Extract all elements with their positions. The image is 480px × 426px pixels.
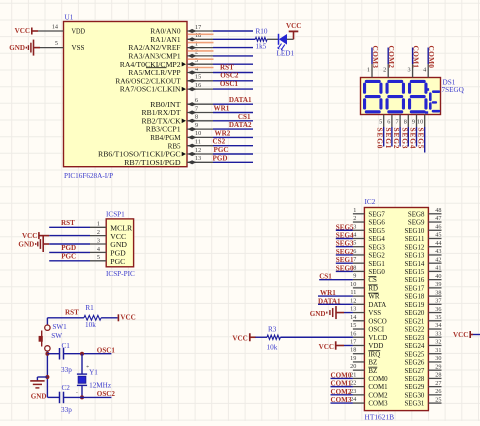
svg-text:8: 8	[353, 264, 356, 271]
svg-text:BZ: BZ	[368, 368, 377, 375]
pin IC2.19 BZ	[350, 355, 377, 367]
pin DS1.9 (SEG4)	[412, 115, 417, 128]
svg-text:2: 2	[383, 67, 386, 74]
svg-text:VDD: VDD	[368, 343, 383, 350]
pin ICSP1.4 PGD	[90, 246, 126, 258]
svg-text:VSS: VSS	[72, 43, 85, 52]
svg-text:26: 26	[435, 388, 441, 395]
svg-text:SEG14: SEG14	[404, 261, 424, 268]
ground GND (ICSP1)	[18, 236, 49, 252]
net label PGD	[213, 154, 228, 162]
svg-text:SW: SW	[51, 332, 62, 340]
svg-text:GND: GND	[9, 44, 25, 52]
pin IC2.48 SEG8	[408, 207, 442, 218]
display DS1 body	[361, 78, 441, 115]
wire (unlabeled stub)	[213, 55, 253, 57]
warning marks (salmon)	[188, 34, 214, 67]
svg-text:SEG0: SEG0	[376, 128, 385, 149]
svg-text:SEG6: SEG6	[368, 220, 385, 227]
wire net COM1	[412, 48, 414, 65]
svg-text:SEG1: SEG1	[336, 256, 354, 264]
pin IC2.5 SEG3	[353, 240, 386, 252]
wire net SEG4	[416, 127, 418, 147]
wire net COM3	[371, 48, 373, 65]
pin IC2.25 SEG31	[404, 396, 441, 407]
pin U1.2 RA3/AN3/CMP1	[128, 49, 213, 61]
wire Y1 top lead	[81, 354, 83, 374]
pin IC2.46 SEG10	[404, 223, 441, 234]
pin ICSP1.2 VCC	[90, 229, 126, 241]
pin IC2.4 SEG4	[353, 231, 386, 243]
svg-text:SEG26: SEG26	[404, 360, 424, 367]
crystal Y1	[77, 369, 111, 390]
svg-text:DATA1: DATA1	[318, 297, 341, 305]
wire (unlabeled stub)	[213, 47, 253, 49]
svg-text:7SEGQ: 7SEGQ	[442, 86, 465, 94]
svg-text:47: 47	[435, 215, 441, 222]
svg-text:SEG4: SEG4	[409, 128, 418, 149]
svg-text:SEG1: SEG1	[368, 261, 385, 268]
pin U1.1 RA2/AN2/VREF	[128, 40, 213, 52]
pin U1.15 RA6/OSC2/CLKOUT	[115, 74, 213, 86]
svg-text:SEG4: SEG4	[336, 231, 354, 239]
svg-text:CS1: CS1	[238, 113, 251, 121]
pin IC2.23 COM2	[350, 388, 388, 400]
power VCC (right edge)	[453, 331, 473, 339]
svg-text:SEG20: SEG20	[404, 310, 424, 317]
svg-text:10: 10	[195, 130, 201, 137]
svg-text:3: 3	[97, 237, 100, 244]
svg-text:SEG2: SEG2	[368, 253, 385, 260]
svg-text:WR: WR	[368, 294, 380, 301]
svg-text:RST: RST	[220, 63, 234, 71]
pin IC2.44 SEG12	[404, 240, 441, 251]
svg-text:SEG3: SEG3	[400, 128, 409, 149]
pin DS1.10 (SEG5)	[417, 115, 425, 128]
svg-text:SEG0: SEG0	[368, 269, 385, 276]
svg-text:SEG22: SEG22	[404, 327, 424, 334]
net label OSC2	[97, 390, 116, 398]
svg-text:16: 16	[195, 82, 201, 89]
svg-text:ICSP-PIC: ICSP-PIC	[106, 270, 135, 278]
power VCC (ICSP1)	[22, 232, 49, 240]
resistor R1	[84, 304, 101, 329]
svg-text:SEG16: SEG16	[404, 277, 424, 284]
pin IC2.15 OSCI	[350, 322, 385, 334]
svg-text:40: 40	[435, 273, 441, 280]
net label RST	[220, 63, 234, 71]
wire U1 RA1 to R10	[213, 38, 255, 40]
svg-text:OSC2: OSC2	[220, 72, 239, 80]
svg-text:COM2: COM2	[368, 392, 388, 399]
capacitor C2	[60, 384, 73, 414]
wire net SEG4 (IC2)	[336, 237, 353, 239]
svg-text:SEG11: SEG11	[405, 236, 425, 243]
svg-text:DATA1: DATA1	[229, 96, 252, 104]
wire net SEG5 (IC2)	[336, 229, 353, 231]
net label OSC1	[97, 346, 116, 354]
wire net DATA1	[213, 103, 253, 105]
svg-text:28: 28	[435, 372, 441, 379]
svg-text:1: 1	[353, 207, 356, 214]
svg-text:SEG5: SEG5	[417, 128, 426, 149]
svg-text:41: 41	[435, 265, 441, 272]
pin IC2.28 SEG28	[404, 372, 441, 383]
net label COM0	[427, 46, 436, 69]
pin ICSP1.5 PGC	[90, 254, 125, 266]
pin IC2.2 SEG6	[353, 215, 386, 227]
svg-text:20: 20	[350, 363, 356, 370]
svg-text:RST: RST	[61, 219, 75, 227]
svg-text:PGC: PGC	[110, 257, 125, 266]
value PIC16F628A-I/P	[64, 172, 113, 180]
wire net RST (ICSP1)	[49, 226, 90, 228]
pin IC2.47 SEG9	[408, 215, 442, 226]
svg-text:38: 38	[435, 289, 441, 296]
svg-text:C2: C2	[62, 384, 71, 392]
connector ICSP1 body	[106, 219, 133, 267]
net label OSC1	[220, 80, 239, 88]
svg-text:GND: GND	[310, 310, 326, 318]
svg-text:12: 12	[350, 297, 356, 304]
svg-text:SEG13: SEG13	[404, 253, 424, 260]
wire net CS1 (IC2)	[319, 279, 353, 281]
svg-text:PIC16F628A-I/P: PIC16F628A-I/P	[64, 172, 113, 180]
designator ICSP1	[106, 210, 125, 218]
net label SEG0 (IC2)	[336, 264, 354, 272]
wire GND branch	[37, 377, 47, 381]
svg-text:VCC: VCC	[120, 314, 135, 322]
svg-text:2: 2	[353, 215, 356, 222]
svg-text:42: 42	[435, 256, 441, 263]
svg-text:WR2: WR2	[215, 129, 231, 137]
pin U1.14 VDD	[38, 24, 85, 36]
svg-text:VLCD: VLCD	[368, 335, 387, 342]
resistor R3	[267, 325, 281, 351]
wire net SEG3 (IC2)	[336, 246, 353, 248]
wire net SEG1	[391, 127, 393, 147]
svg-text:12MHz: 12MHz	[89, 382, 111, 390]
net label COM0 (IC2)	[331, 371, 352, 379]
pin IC2.35 SEG21	[404, 314, 441, 325]
svg-text:19: 19	[350, 355, 356, 362]
svg-text:15: 15	[350, 322, 356, 329]
pin U1.18 RA1/AN1	[150, 32, 213, 44]
svg-text:17: 17	[195, 24, 201, 31]
svg-text:SEG1: SEG1	[384, 128, 393, 149]
svg-text:PGD: PGD	[61, 244, 76, 252]
wire net COM2	[387, 48, 389, 65]
svg-text:PGD: PGD	[213, 154, 228, 162]
net label DATA1	[229, 96, 252, 104]
svg-text:32: 32	[435, 339, 441, 346]
svg-text:35: 35	[435, 314, 441, 321]
svg-text:SEG4: SEG4	[368, 236, 385, 243]
pin IC2.34 SEG22	[404, 322, 441, 333]
pin IC2.36 SEG20	[404, 306, 441, 317]
svg-text:14: 14	[350, 314, 356, 321]
svg-text:COM1: COM1	[412, 46, 421, 69]
net label COM2	[387, 46, 396, 69]
wire net SEG1 (IC2)	[336, 262, 353, 264]
wire net PGD (ICSP1)	[49, 251, 90, 253]
svg-text:4: 4	[97, 246, 100, 253]
net label CS2	[213, 138, 226, 146]
pin IC2.29 SEG27	[404, 363, 441, 374]
wire net COM3 (IC2)	[331, 402, 353, 404]
svg-text:RB7/T1OSI/PGD: RB7/T1OSI/PGD	[124, 158, 181, 167]
wire net SEG0	[383, 127, 385, 147]
svg-text:OSC1: OSC1	[220, 80, 239, 88]
pin U1.17 RA0/AN0	[150, 24, 213, 36]
svg-text:OSCI: OSCI	[368, 327, 384, 334]
net label CS1	[238, 113, 251, 121]
svg-text:SEG31: SEG31	[404, 401, 424, 408]
svg-text:COM1: COM1	[331, 380, 352, 388]
svg-text:8: 8	[195, 114, 198, 121]
pin IC2.38 SEG18	[404, 289, 441, 300]
value ICSP-PIC	[106, 270, 135, 278]
svg-text:34: 34	[435, 322, 441, 329]
svg-text:29: 29	[435, 363, 441, 370]
svg-text:SEG2: SEG2	[392, 128, 401, 149]
pin DS1.5 (SEG0)	[379, 115, 384, 128]
svg-text:GND: GND	[31, 393, 47, 401]
wire net WR1 (IC2)	[318, 295, 353, 297]
net label SEG1 (IC2)	[336, 256, 354, 264]
ground GND (U1 VSS)	[9, 40, 40, 56]
wire R1 to VCC	[101, 317, 117, 319]
pin IC2.33 SEG23	[404, 330, 441, 341]
net label WR2	[215, 129, 231, 137]
svg-text:3: 3	[195, 57, 198, 64]
svg-text:SEG15: SEG15	[404, 269, 424, 276]
svg-text:17: 17	[350, 338, 356, 345]
svg-text:SEG7: SEG7	[368, 211, 385, 218]
wire rail to C1	[47, 353, 59, 355]
wire Y1 bottom lead	[81, 385, 83, 397]
svg-text:PGC: PGC	[61, 252, 76, 260]
svg-text:CS2: CS2	[213, 138, 226, 146]
svg-text:WR1: WR1	[214, 105, 230, 113]
pin U1.9 RB3/CCP1	[146, 122, 213, 134]
net label SEG2 (IC2)	[336, 248, 354, 256]
wire net COM0	[427, 48, 429, 65]
wire net PGC (ICSP1)	[49, 260, 90, 262]
wire net SEG2 (IC2)	[336, 254, 353, 256]
pin IC2.20 BZ	[350, 363, 377, 375]
net label OSC2	[220, 72, 239, 80]
power VCC (R3)	[232, 333, 255, 342]
net label CS1 (IC2)	[319, 273, 332, 281]
pin DS1.4 (COM0)	[423, 64, 428, 78]
svg-text:DATA2: DATA2	[229, 121, 252, 129]
pin U1.16 RA7/OSC1/CLKIN	[120, 82, 213, 94]
7-seg digit 3	[408, 80, 428, 114]
svg-text:10: 10	[350, 281, 356, 288]
net label COM2 (IC2)	[331, 388, 352, 396]
svg-text:2: 2	[195, 49, 198, 56]
svg-text:5: 5	[97, 254, 100, 261]
pin IC2.40 SEG16	[404, 273, 441, 284]
svg-text:VDD: VDD	[72, 27, 86, 36]
wire net SEG3	[407, 127, 409, 147]
wire net WR1	[213, 112, 253, 114]
chip IC2 body	[364, 208, 428, 411]
svg-text:5: 5	[55, 40, 58, 47]
wire net COM0 (IC2)	[331, 377, 353, 379]
pin ICSP1.3 GND	[90, 237, 127, 249]
svg-text:9: 9	[412, 119, 415, 126]
svg-text:SEG29: SEG29	[404, 384, 424, 391]
wire net PGC	[213, 153, 253, 155]
wire C1 to OSC1	[64, 353, 112, 355]
switch SW1	[39, 323, 68, 351]
svg-text:6: 6	[353, 248, 356, 255]
svg-text:25: 25	[435, 396, 441, 403]
net label COM3 (IC2)	[331, 396, 352, 404]
svg-text:SEG17: SEG17	[404, 285, 424, 292]
wire net DATA1 (IC2)	[318, 303, 353, 305]
wire GND to ICSP1.3	[49, 243, 90, 245]
svg-text:SEG2: SEG2	[336, 248, 354, 256]
pin DS1.3 (COM1)	[408, 64, 413, 78]
svg-text:LED1: LED1	[277, 49, 295, 57]
svg-text:4: 4	[353, 231, 356, 238]
svg-text:5: 5	[379, 119, 382, 126]
clipped 4th digit segments	[425, 88, 440, 114]
pin U1.8 RB2/TX/CK	[142, 114, 214, 126]
svg-text:2: 2	[97, 229, 100, 236]
junction (Y1 bottom)	[80, 395, 84, 399]
svg-text:WR1: WR1	[320, 289, 336, 297]
svg-text:33: 33	[435, 330, 441, 337]
net label PGD (ICSP1)	[61, 244, 76, 252]
svg-text:ICSP1: ICSP1	[106, 210, 125, 218]
svg-text:VCC: VCC	[286, 22, 301, 30]
svg-text:U1: U1	[65, 14, 74, 22]
wire net SEG5	[424, 127, 426, 153]
svg-text:SEG18: SEG18	[404, 294, 424, 301]
net label DATA1 (IC2)	[318, 297, 341, 305]
svg-text:SEG12: SEG12	[404, 244, 424, 251]
svg-text:13: 13	[195, 155, 201, 162]
svg-text:46: 46	[435, 223, 441, 230]
pin IC2.42 SEG14	[404, 256, 441, 267]
wire net COM1 (IC2)	[331, 386, 353, 388]
power VCC (LED1)	[286, 22, 301, 40]
resistor R10	[255, 28, 268, 51]
svg-text:4: 4	[195, 65, 198, 72]
svg-text:SEG3: SEG3	[336, 240, 354, 248]
svg-text:37: 37	[435, 298, 441, 305]
wire net PGD	[213, 161, 253, 163]
svg-text:4: 4	[423, 67, 426, 74]
wire net SEG2	[399, 127, 401, 147]
pin DS1.1 (COM3)	[367, 64, 372, 78]
chip U1 body	[64, 22, 188, 167]
pin U1.12 RB6/T1OSO/T1CKI/PGC	[98, 147, 213, 159]
wire net RST (switch row)	[47, 318, 84, 325]
pin U1.7 RB1/RX/DT	[142, 105, 214, 117]
svg-text:Y1: Y1	[89, 369, 98, 377]
pin U1.6 RB0/INT	[150, 97, 213, 109]
svg-text:SEG21: SEG21	[404, 318, 424, 325]
net label SEG5	[417, 128, 426, 149]
svg-text:1: 1	[97, 221, 100, 228]
LED LED1	[267, 34, 294, 58]
pin IC2.21 COM0	[350, 371, 388, 383]
pin U1.10 RB4/PGM	[150, 130, 213, 142]
svg-text:3: 3	[353, 223, 356, 230]
svg-text:7: 7	[353, 256, 356, 263]
svg-text:33p: 33p	[61, 406, 72, 414]
svg-text:OSC2: OSC2	[97, 390, 116, 398]
pin DS1.7 (SEG2)	[396, 115, 401, 128]
svg-text:10: 10	[417, 119, 423, 126]
svg-text:COM0: COM0	[331, 371, 352, 379]
net label COM1 (IC2)	[331, 380, 352, 388]
net label COM1	[412, 46, 421, 69]
svg-text:SEG5: SEG5	[336, 223, 354, 231]
pin IC2.26 SEG30	[404, 388, 441, 399]
power VCC (R1)	[118, 314, 135, 322]
svg-text:18: 18	[350, 347, 356, 354]
pin U1.4 RA5/MCLR/VPP	[128, 65, 213, 77]
wire VCC to R3	[255, 336, 267, 338]
svg-text:5: 5	[353, 240, 356, 247]
svg-text:33p: 33p	[61, 366, 72, 374]
pin IC2.41 SEG15	[404, 265, 441, 276]
pin IC2.31 SEG25	[404, 347, 441, 358]
svg-text:30: 30	[435, 355, 441, 362]
svg-text:SEG23: SEG23	[404, 335, 424, 342]
pin IC2.10 RD	[350, 281, 378, 293]
svg-text:44: 44	[435, 240, 441, 247]
svg-text:PGC: PGC	[214, 146, 229, 154]
svg-text:SEG25: SEG25	[404, 351, 424, 358]
pin DS1.2 (COM2)	[383, 64, 388, 78]
pin IC2.8 SEG0	[353, 264, 386, 276]
net label PGC (ICSP1)	[61, 252, 76, 260]
svg-text:1: 1	[195, 40, 198, 47]
net label WR1 (IC2)	[320, 289, 336, 297]
pin IC2.14 OSCO	[350, 314, 387, 326]
net label SEG0	[376, 128, 385, 149]
svg-text:R10: R10	[256, 28, 268, 36]
svg-text:1: 1	[367, 67, 370, 74]
svg-text:36: 36	[435, 306, 441, 313]
wire (unlabeled stub)	[213, 30, 253, 32]
svg-text:11: 11	[350, 289, 356, 296]
designator IC2	[365, 198, 376, 206]
svg-text:1k5: 1k5	[256, 42, 267, 50]
net label SEG1	[384, 128, 393, 149]
pin IC2.9 CS	[353, 273, 377, 285]
pin IC2.17 VDD	[350, 338, 383, 350]
wire net CS2	[213, 145, 253, 147]
svg-text:COM0: COM0	[427, 46, 436, 69]
svg-text:18: 18	[195, 32, 201, 39]
pin U1.3 RA4/T0CKI/CMP2	[120, 57, 213, 69]
svg-text:*: *	[86, 365, 89, 371]
junction (rail/GND)	[45, 375, 49, 379]
svg-text:31: 31	[435, 347, 441, 354]
pin IC2.37 SEG19	[404, 298, 441, 309]
svg-text:6: 6	[387, 119, 390, 126]
pin IC2.43 SEG13	[404, 248, 441, 259]
pin U1.13 RB7/T1OSI/PGD	[124, 155, 213, 167]
